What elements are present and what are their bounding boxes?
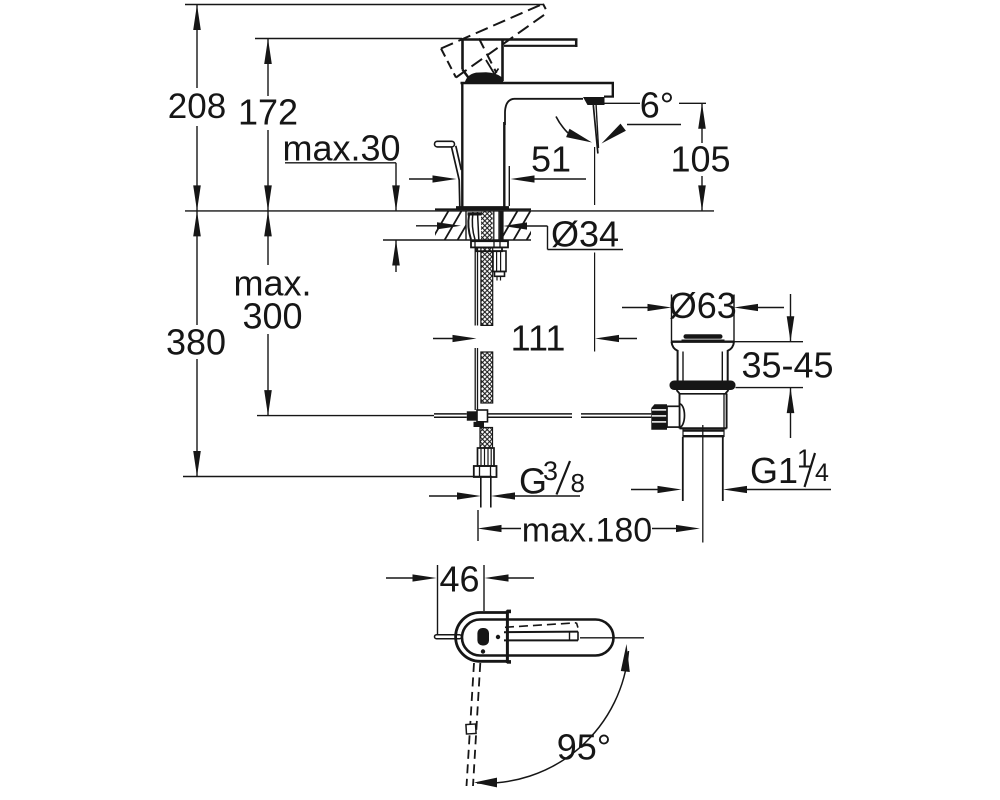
- dimension 380: [166, 211, 226, 477]
- svg-text:35-45: 35-45: [741, 345, 833, 386]
- dimension G1 1/4: [631, 444, 831, 494]
- svg-text:max.180: max.180: [522, 512, 652, 550]
- faucet base flange on counter: [456, 206, 509, 209]
- drain valve body: [677, 390, 729, 429]
- dimension 35-45: [734, 294, 834, 438]
- supply pipe tail: [481, 477, 491, 508]
- knob stem: [667, 404, 685, 427]
- svg-text:51: 51: [531, 139, 571, 180]
- 95 degree arc: [477, 651, 629, 783]
- svg-text:8: 8: [571, 468, 585, 498]
- dimension 46 (top view): [386, 559, 534, 636]
- drain compression joint: [683, 429, 724, 438]
- svg-text:Ø63: Ø63: [669, 285, 737, 326]
- lever bar (top view): [504, 632, 578, 641]
- drain tailpipe: [683, 437, 723, 501]
- hose guide tube in hole: [494, 211, 499, 240]
- drain center extension line: [702, 425, 704, 543]
- water stream: [593, 105, 598, 154]
- svg-text:6°: 6°: [640, 85, 674, 126]
- dimension max.30 (counter thickness): [282, 128, 400, 273]
- dimension 111: [433, 318, 637, 359]
- braided hose section in hole: [481, 212, 493, 241]
- wire counter underside line: [383, 239, 531, 241]
- faucet lever bar: [504, 39, 578, 48]
- 6 degree callout: [556, 85, 706, 144]
- handle outline (top view stadium): [462, 620, 614, 656]
- dimension 172: [238, 39, 298, 211]
- lever alternate position (dashed, top view): [505, 623, 579, 630]
- faucet handle head: [461, 39, 578, 82]
- svg-text:G1: G1: [750, 450, 798, 491]
- counter hatching right of hole: [500, 210, 544, 241]
- dimension 51 (spout reach): [409, 139, 586, 207]
- wire top reference line (lever max height): [185, 4, 543, 6]
- flexible hose upper section: [481, 247, 493, 403]
- svg-text:95°: 95°: [557, 727, 611, 768]
- pop-up rod (side view): [435, 141, 462, 206]
- svg-text:300: 300: [242, 296, 302, 337]
- drain flange: [672, 342, 735, 381]
- faucet lever raised position (dashed): [441, 4, 548, 78]
- svg-text:Ø34: Ø34: [551, 214, 619, 255]
- wire hose-end reference line (max.300): [257, 415, 434, 417]
- break symbol on swung lever: [466, 724, 476, 734]
- svg-text:208: 208: [168, 87, 226, 126]
- dimension max.300: [233, 211, 311, 416]
- second hose fitting (short): [493, 251, 506, 281]
- counter hatching left of hole: [431, 210, 475, 241]
- dimension 105: [670, 103, 730, 211]
- water stream extension line: [594, 147, 596, 352]
- dimension 208: [168, 5, 226, 211]
- svg-text:3: 3: [543, 456, 558, 486]
- handle pivot (black base crescent): [465, 72, 505, 83]
- max.180 dimension: [478, 510, 701, 550]
- dimension Ø63: [622, 285, 784, 342]
- lever swung position (dashed): [467, 663, 481, 786]
- svg-text:380: 380: [166, 322, 226, 363]
- pop-up rod (top view): [435, 635, 462, 639]
- svg-text:46: 46: [439, 559, 479, 600]
- shank in counter hole: [466, 211, 504, 240]
- mounting nut below counter: [471, 241, 508, 251]
- G 3/8 hex nut: [474, 466, 497, 477]
- 95 degree reference line: [580, 637, 644, 639]
- svg-text:105: 105: [670, 139, 730, 180]
- aerator (spout outlet): [583, 97, 605, 105]
- faucet body column: [462, 84, 504, 207]
- G 3/8 dimension: [429, 456, 585, 502]
- flexible hose lower section: [480, 428, 493, 449]
- faucet spout body: [461, 83, 615, 125]
- counter hatched section top edge: [435, 208, 531, 210]
- dimension Ø34 (shank diameter callout): [416, 214, 623, 255]
- knurled knob: [651, 404, 667, 429]
- svg-text:4: 4: [815, 459, 829, 487]
- rubber gasket (black seal ring): [670, 381, 736, 391]
- horizontal pop-up linkage rod: [434, 414, 651, 417]
- hose-rod connector block: [467, 410, 488, 427]
- wire second reference line (handle top): [255, 38, 462, 40]
- svg-text:172: 172: [238, 92, 298, 133]
- pop-up rod below counter: [475, 247, 477, 410]
- svg-text:111: 111: [511, 318, 566, 359]
- G 3/8 fitting (ribbed): [478, 448, 495, 466]
- drain plug cap: [682, 334, 725, 340]
- cartridge hole (top view): [477, 628, 489, 646]
- 95 degree arc arrowheads: [621, 644, 630, 672]
- wire countertop surface line: [185, 210, 714, 212]
- base bracket (top view): [456, 610, 511, 664]
- screw dots (top view): [496, 635, 500, 639]
- wire bottom reference line (380): [183, 476, 492, 478]
